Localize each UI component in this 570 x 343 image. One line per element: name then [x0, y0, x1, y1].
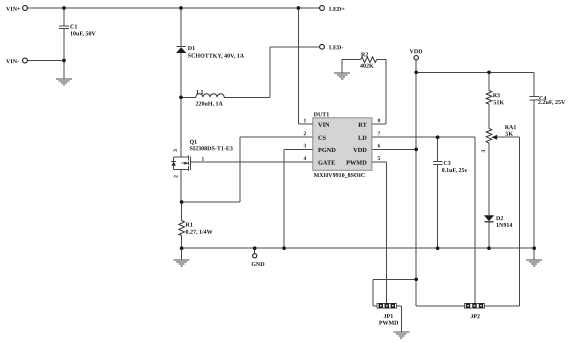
svg-text:3: 3: [304, 143, 307, 149]
svg-text:CS: CS: [318, 135, 327, 142]
svg-text:3: 3: [173, 149, 179, 152]
svg-text:D2: D2: [496, 216, 503, 222]
svg-text:6: 6: [378, 143, 381, 149]
svg-text:R3: R3: [493, 93, 500, 99]
svg-text:GATE: GATE: [318, 160, 335, 167]
svg-text:10uF, 50V: 10uF, 50V: [70, 31, 96, 37]
svg-text:SCHOTTKY, 40V, 1A: SCHOTTKY, 40V, 1A: [188, 54, 245, 60]
svg-text:402K: 402K: [360, 64, 374, 70]
svg-text:L1: L1: [197, 90, 204, 96]
svg-text:2: 2: [173, 175, 179, 178]
svg-text:JP1: JP1: [384, 314, 394, 320]
svg-text:PWMD: PWMD: [379, 321, 399, 327]
svg-text:LED-: LED-: [329, 45, 343, 51]
svg-text:R2: R2: [361, 52, 368, 58]
svg-text:C1: C1: [70, 25, 77, 31]
svg-text:VIN: VIN: [318, 122, 330, 129]
svg-text:8: 8: [378, 118, 381, 124]
svg-text:VDD: VDD: [410, 49, 424, 55]
svg-text:RA1: RA1: [505, 125, 517, 131]
svg-text:VIN+: VIN+: [6, 7, 21, 13]
svg-text:PGND: PGND: [318, 147, 336, 154]
svg-text:VIN-: VIN-: [6, 59, 19, 65]
svg-text:VDD: VDD: [353, 147, 367, 154]
svg-text:0.27, 1/4W: 0.27, 1/4W: [185, 230, 212, 236]
svg-text:1N914: 1N914: [496, 223, 512, 229]
svg-text:220uH, 1A: 220uH, 1A: [196, 101, 224, 107]
svg-text:LD: LD: [358, 135, 367, 142]
svg-text:3: 3: [481, 149, 487, 152]
svg-text:JP2: JP2: [470, 314, 480, 320]
svg-text:2.2uF, 25V: 2.2uF, 25V: [538, 100, 566, 106]
svg-text:PWMD: PWMD: [346, 160, 367, 167]
svg-text:GND: GND: [251, 262, 265, 268]
svg-text:5K: 5K: [505, 132, 513, 138]
svg-text:1: 1: [304, 118, 307, 124]
svg-text:51K: 51K: [493, 100, 504, 106]
svg-text:LED+: LED+: [329, 7, 345, 13]
svg-text:Q1: Q1: [190, 140, 198, 146]
svg-text:1: 1: [202, 157, 205, 163]
svg-text:5: 5: [378, 156, 381, 162]
svg-text:D1: D1: [188, 46, 195, 52]
svg-text:0.1uF, 25v: 0.1uF, 25v: [442, 168, 468, 174]
svg-text:SI2308DS-T1-E3: SI2308DS-T1-E3: [190, 146, 233, 152]
svg-text:DUT1: DUT1: [314, 112, 330, 118]
svg-text:RT: RT: [358, 122, 367, 129]
svg-text:2: 2: [304, 131, 307, 137]
svg-text:MXHV9910_8SOIC: MXHV9910_8SOIC: [314, 173, 366, 179]
svg-text:R1: R1: [185, 222, 192, 228]
svg-text:4: 4: [304, 156, 307, 162]
svg-text:7: 7: [378, 131, 381, 137]
svg-text:C3: C3: [443, 161, 450, 167]
